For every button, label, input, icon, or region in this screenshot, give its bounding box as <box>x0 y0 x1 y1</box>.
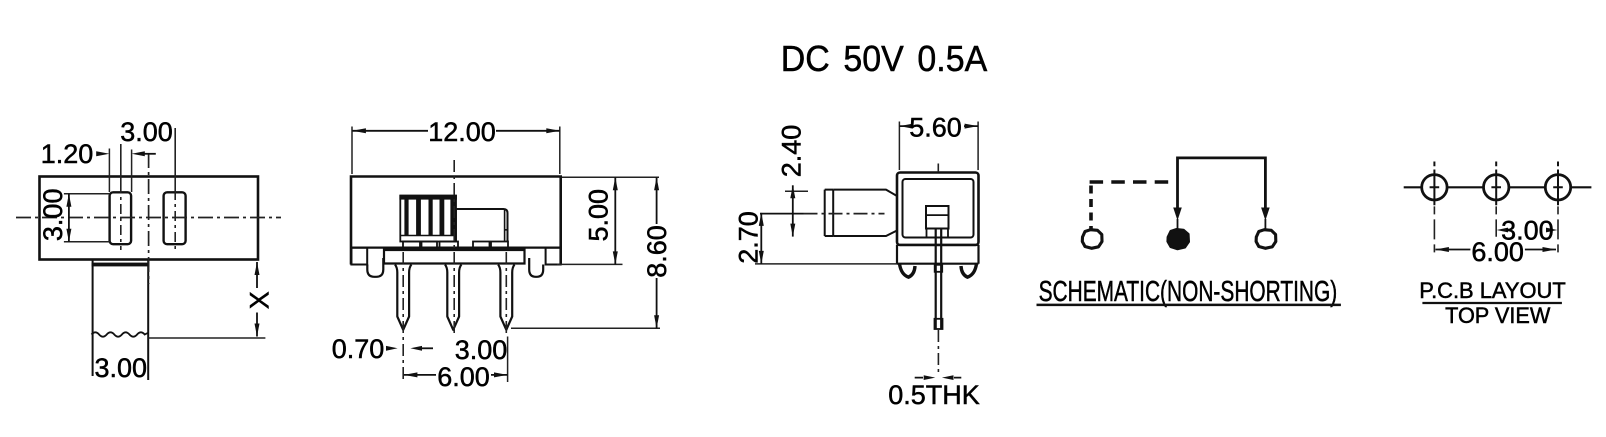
fig3 dim 0.5THK line and arrows <box>915 377 962 379</box>
pcb dim 6.00 line <box>1435 249 1556 251</box>
fig3 body outer outline <box>897 173 979 246</box>
svg-text:3.00: 3.00 <box>95 353 148 383</box>
fig2 dim 6.00 arrows <box>404 372 418 377</box>
fig3 pin tip detail <box>935 319 943 329</box>
fig2 pin1 centerline <box>402 252 404 381</box>
fig2 base top thick line <box>384 248 525 251</box>
svg-text:2.40: 2.40 <box>777 125 807 178</box>
fig3 knob centerline <box>760 213 804 215</box>
schematic dashed wire horizontal <box>1090 180 1175 184</box>
fig2 knob outline <box>400 196 456 242</box>
fig2 knob bottom line <box>400 235 456 237</box>
pcb dim 6.00 arrows <box>1435 247 1449 252</box>
svg-text:X: X <box>244 291 274 309</box>
pcb pad1 extension <box>1433 206 1435 257</box>
pcb pad 2 <box>1484 175 1509 200</box>
fig1 slot2 centerline <box>174 128 176 190</box>
fig2 dim 6.00 line <box>404 374 508 376</box>
fig2 pin 1 <box>395 265 411 330</box>
fig1 slot1 centerline <box>120 144 122 183</box>
fig2 dim 12.00 extension lines <box>352 127 560 175</box>
fig3 contact legs <box>927 229 949 238</box>
fig1 stem break wavy line <box>92 332 148 336</box>
fig1 slot 1 <box>110 192 132 244</box>
fig3 dim 5.60 arrows <box>899 124 913 129</box>
schematic label underline <box>1037 304 1341 307</box>
fig2 dim 0.70 arrows <box>386 346 398 351</box>
fig3 pin <box>936 229 942 330</box>
fig2 slider plate <box>456 209 508 242</box>
fig3 dim 5.60 line <box>899 125 978 127</box>
fig2 dim 5.00 bottom extension line <box>557 263 623 265</box>
svg-text:8.60: 8.60 <box>642 225 672 278</box>
fig3 base band <box>897 245 979 264</box>
fig2 slider plate inner edge <box>505 210 508 242</box>
fig2 left foot <box>367 258 383 277</box>
fig3 contact block divider <box>926 214 949 216</box>
fig3 knob body <box>833 190 897 236</box>
fig3 left foot <box>900 264 916 278</box>
fig2 base plate <box>384 248 525 264</box>
fig2 dim 5.00 top extension line <box>562 176 659 178</box>
svg-text:3.00: 3.00 <box>38 189 68 242</box>
svg-text:1.20: 1.20 <box>41 139 94 169</box>
svg-text:3.00: 3.00 <box>455 335 508 365</box>
fig1 dim X line and arrows <box>256 262 258 337</box>
fig2 knob top band <box>399 195 457 200</box>
fig3 knob end cap <box>825 190 834 236</box>
schematic terminal 1 <box>1082 230 1102 249</box>
svg-text:6.00: 6.00 <box>1471 237 1524 267</box>
svg-text:P.C.B LAYOUT: P.C.B LAYOUT <box>1419 278 1565 303</box>
fig1 dim 3.00 left extension lines <box>64 194 110 242</box>
schematic arrow left <box>1173 208 1182 221</box>
fig3 pin centerline below <box>937 330 939 372</box>
fig1 dim 3.00 left line and arrows <box>68 194 70 242</box>
fig2 right notch <box>546 248 561 265</box>
fig1 dim 1.20 arrows <box>96 151 109 156</box>
svg-text:2.70: 2.70 <box>733 211 763 264</box>
fig3 dim 2.40 extension line <box>785 190 808 192</box>
fig1 slot 2 <box>164 192 186 244</box>
fig1 stem left edge <box>92 260 94 376</box>
fig2 pin3 extension line <box>507 337 509 383</box>
fig2 contact tabs <box>403 242 508 248</box>
fig2 dim 8.60 arrows <box>654 177 659 190</box>
fig1 horizontal centerline <box>16 217 281 219</box>
svg-text:12.00: 12.00 <box>428 117 496 147</box>
schematic top wire <box>1178 158 1266 214</box>
svg-text:0.5THK: 0.5THK <box>888 380 980 410</box>
pcb pad2 extension <box>1495 206 1497 236</box>
fig2 body outline <box>351 177 561 265</box>
svg-text:SCHEMATIC(NON-SHORTING): SCHEMATIC(NON-SHORTING) <box>1039 276 1338 308</box>
schematic arrow right <box>1261 208 1270 221</box>
fig3 contact block <box>926 206 949 229</box>
fig3 dim 2.70 line and arrows <box>760 213 762 264</box>
fig2 dim 12.00 arrows <box>352 128 366 133</box>
fig3 body inner outline <box>903 179 974 238</box>
schematic terminal 2 (common, filled) <box>1167 229 1189 249</box>
pcb pad 1 <box>1422 175 1447 200</box>
fig2 knob serration bars <box>404 199 456 236</box>
fig2 dim 8.60 bottom extension line <box>511 327 660 329</box>
pcb dim 3.00 arrows <box>1497 228 1508 233</box>
fig3 body top centerline tick <box>937 164 939 173</box>
fig3 dim 2.40 line and arrows <box>792 185 794 236</box>
pcb label underline <box>1422 302 1562 304</box>
fig2 dim 8.60 line <box>656 177 658 328</box>
fig2 pin3 centerline <box>505 252 507 337</box>
fig3 pin root detail <box>935 265 943 272</box>
svg-text:6.00: 6.00 <box>437 362 490 392</box>
fig2 pin 2 <box>445 265 461 330</box>
fig1 stem top thick band <box>92 263 150 267</box>
fig3 dim 5.60 extension lines <box>899 122 978 171</box>
svg-text:TOP VIEW: TOP VIEW <box>1445 303 1551 328</box>
svg-text:5.60: 5.60 <box>909 113 962 143</box>
fig3 right foot <box>961 264 977 278</box>
schematic dashed wire vertical <box>1089 186 1093 229</box>
fig1 dim X extension line <box>148 337 265 339</box>
fig2 dim 12.00 line <box>352 130 559 132</box>
fig1 body outline <box>40 177 259 260</box>
pcb horizontal centerline <box>1404 186 1592 188</box>
pcb pad3 extension <box>1557 206 1559 257</box>
svg-text:3.00: 3.00 <box>120 117 173 147</box>
fig2 body bottom line <box>351 247 561 249</box>
svg-text:0.70: 0.70 <box>332 334 385 364</box>
fig1 stem right edge <box>147 260 149 380</box>
fig2 body/pin2 centerline <box>453 160 455 337</box>
fig2 right foot <box>529 258 543 277</box>
pcb pad 3 <box>1545 175 1570 200</box>
fig2 pin 3 <box>498 265 514 330</box>
fig3 dim 2.70 bottom extension line <box>755 263 897 265</box>
schematic terminal 3 <box>1256 230 1276 249</box>
fig2 left notch <box>351 248 367 265</box>
svg-text:5.00: 5.00 <box>584 189 614 242</box>
fig2 dim 5.00 line and arrows <box>614 177 616 264</box>
fig1 vertical centerline main <box>148 153 150 284</box>
svg-text:DC 50V 0.5A: DC 50V 0.5A <box>781 39 988 79</box>
fig1 dim 1.20 extension lines <box>109 149 131 193</box>
